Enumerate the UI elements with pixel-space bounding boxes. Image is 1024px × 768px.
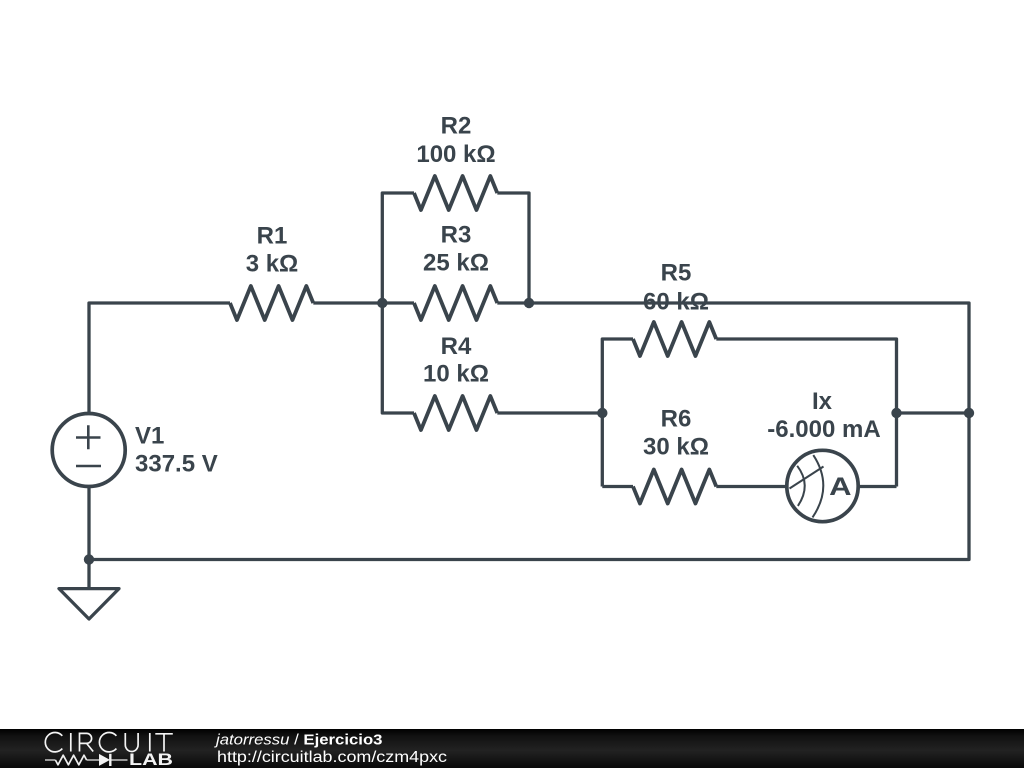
wire ground stub [87, 560, 90, 589]
svg-text:R5: R5 [661, 260, 692, 287]
svg-text:R6: R6 [661, 406, 692, 433]
ammeter scale arc 2 [813, 455, 824, 517]
svg-text:V1: V1 [135, 423, 164, 450]
node D junction dot [891, 408, 901, 418]
ground junction dot [84, 554, 94, 564]
wire R4 to node C [497, 411, 602, 414]
logo resistor wire [45, 759, 128, 761]
svg-text:3 kΩ: 3 kΩ [246, 251, 299, 278]
svg-text:100 kΩ: 100 kΩ [416, 141, 495, 168]
svg-text:R3: R3 [441, 222, 472, 249]
svg-text:337.5 V: 337.5 V [135, 451, 218, 478]
footer bar [0, 729, 1024, 768]
svg-text:10 kΩ: 10 kΩ [423, 361, 489, 388]
label V1 value [135, 423, 218, 478]
svg-text:jatorressu / Ejercicio3: jatorressu / Ejercicio3 [214, 732, 383, 749]
CircuitLab logo CIRCUIT letters [45, 732, 172, 751]
wire R1 to node A [313, 301, 414, 304]
wire R2 branch right [497, 193, 529, 303]
wire R6 lead [602, 485, 633, 488]
wire ammeter to node D [858, 485, 897, 488]
ammeter scale arc 1 [797, 466, 805, 506]
logo resistor zigzag [55, 755, 86, 765]
node B junction dot [524, 298, 534, 308]
label R2 value [416, 113, 495, 169]
resistor R6 [633, 470, 716, 504]
svg-text:R4: R4 [441, 333, 472, 360]
resistor R4 [414, 396, 497, 430]
label R6 value [643, 406, 709, 461]
right rail junction dot [964, 408, 974, 418]
svg-text:LAB: LAB [129, 751, 173, 768]
label R3 value [423, 222, 489, 277]
svg-text:R2: R2 [441, 113, 472, 140]
svg-text:30 kΩ: 30 kΩ [643, 434, 709, 461]
svg-text:R1: R1 [257, 223, 288, 250]
wire left rail top to R1 [89, 303, 230, 414]
svg-text:-6.000 mA: -6.000 mA [767, 416, 880, 443]
label Ix value [767, 388, 880, 443]
svg-text:http://circuitlab.com/czm4pxc: http://circuitlab.com/czm4pxc [217, 749, 447, 766]
ammeter needle [790, 467, 824, 489]
wire R5 branch left [602, 339, 633, 487]
wire R6 to ammeter [716, 485, 787, 488]
V1 minus sign [76, 465, 101, 468]
node C junction dot [597, 408, 607, 418]
label R4 value [423, 333, 489, 388]
svg-text:Ix: Ix [812, 388, 833, 415]
V1 plus sign [76, 425, 101, 449]
resistor R2 [414, 176, 497, 210]
svg-text:25 kΩ: 25 kΩ [423, 250, 489, 277]
wire R5 right to node D [716, 339, 896, 487]
ground [59, 589, 119, 619]
svg-text:A: A [829, 473, 851, 501]
ammeter Ix [787, 450, 858, 521]
wire node D to right rail [897, 411, 970, 414]
wire node B to right rail, bottom rail, to V1 minus [89, 303, 969, 560]
node A junction dot [377, 298, 387, 308]
resistor R3 [414, 286, 497, 320]
wire R4 branch left [382, 303, 414, 413]
label R5 value [643, 260, 709, 316]
wire R2 branch left [382, 193, 414, 303]
resistor R1 [230, 286, 313, 320]
logo diode [99, 754, 110, 766]
voltage source V1 [52, 414, 125, 487]
resistor R5 [633, 322, 716, 356]
label R1 value [246, 223, 299, 278]
